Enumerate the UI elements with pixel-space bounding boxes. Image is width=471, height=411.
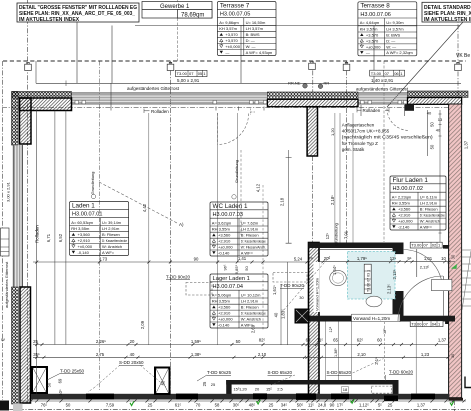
svg-text:34⁵: 34⁵: [281, 403, 288, 408]
axis dashed vertical x=99.4 Grundleitung: [98, 61, 100, 390]
bottom-left black wedge: [0, 401, 9, 411]
outer wall left: hatch vertical upper leg: [20, 98, 32, 144]
svg-text:LH 3,57m: LH 3,57m: [246, 26, 264, 31]
dashed box under label: [186, 283, 212, 296]
svg-text:1,64⁵: 1,64⁵: [332, 265, 337, 275]
dashed pocket door leaf: [371, 386, 391, 393]
svg-text:Lager Laden 1: Lager Laden 1: [213, 276, 250, 282]
corridor line x385.3: [384, 322, 386, 381]
svg-text:07: 07: [423, 321, 428, 326]
svg-text:Gewerbe 1: Gewerbe 1: [160, 4, 190, 10]
svg-text:1,38⁵: 1,38⁵: [334, 348, 338, 357]
roof drain RR.NE: [303, 84, 308, 89]
outer wall top-left corner: hatch horizontal leg: [20, 98, 72, 111]
svg-text:D: —: D: —: [246, 38, 255, 43]
svg-text:S-DD 65x20: S-DD 65x20: [268, 370, 293, 375]
svg-text:+±0,000: +±0,000: [225, 44, 240, 49]
Gewerbe 1 area label box: [142, 2, 212, 19]
door frame block on pink wall bottom: [445, 321, 449, 325]
svg-text:2,1⁵: 2,1⁵: [374, 357, 379, 365]
svg-text:T3.00: T3.00: [371, 71, 382, 76]
svg-text:H3.00.07.02: H3.00.07.02: [393, 186, 423, 192]
leader circle on grundleitung 2: [232, 195, 236, 199]
svg-text:Flur Laden 1: Flur Laden 1: [393, 177, 429, 184]
grating band segment right x358-407.5: [358, 94, 408, 102]
svg-text:2,75: 2,75: [96, 352, 105, 357]
leader from detail box x=77: [76, 22, 78, 83]
svg-text:U= 7,62m: U= 7,62m: [241, 220, 259, 225]
svg-text:20: 20: [255, 387, 260, 392]
svg-text:Terrasse 8: Terrasse 8: [360, 3, 390, 10]
axis grid dash-dot vertical far left: [2, 61, 4, 400]
vorwand blue zone: [348, 252, 396, 300]
svg-text:07: 07: [189, 71, 194, 76]
svg-text:—: —: [366, 50, 370, 55]
wc toilet oval: [366, 296, 382, 307]
svg-text:A= 3,62qm: A= 3,62qm: [212, 220, 232, 225]
svg-text:6,71: 6,71: [46, 233, 51, 242]
svg-text:IM AKTUELLSTEN IN: IM AKTUELLSTEN IN: [424, 17, 471, 23]
green check markers bottom: [130, 401, 134, 405]
interior line x237.3: [236, 113, 238, 262]
vorwand label vertical: [313, 262, 319, 312]
svg-text:Rolladen: Rolladen: [35, 225, 40, 243]
svg-text:D: Kassettendecke: D: Kassettendecke: [420, 213, 446, 218]
svg-text:1,37: 1,37: [438, 338, 447, 343]
stair steps right of pink wall: [462, 250, 471, 310]
svg-text:50: 50: [236, 339, 241, 344]
svg-text:W: Anstrich: W: Anstrich: [102, 244, 122, 249]
svg-text:25: 25: [33, 339, 38, 344]
svg-text:50⁵: 50⁵: [297, 403, 304, 408]
column K2 bottom-middle: [155, 368, 170, 395]
dashed leader S1: [271, 375, 295, 385]
dashed leader vertical x241: [240, 150, 242, 235]
top wall right section: hatch: [408, 98, 462, 105]
svg-text:6,85⁵: 6,85⁵: [234, 264, 239, 274]
dashed leader lager door: [283, 256, 330, 311]
WC north wall inner face line: [320, 249, 392, 251]
svg-text:H3.00.07.03: H3.00.07.03: [213, 212, 243, 218]
svg-text:70: 70: [196, 403, 201, 408]
right window jamb stubs: [361, 105, 428, 156]
svg-text:82⁵: 82⁵: [259, 338, 266, 343]
svg-text:1,20: 1,20: [239, 387, 248, 392]
svg-text:LH 3,57m: LH 3,57m: [386, 26, 404, 31]
long thin horizontal line y=25.5: [135, 25, 460, 27]
svg-text:+3,560: +3,560: [78, 232, 91, 237]
svg-text:40: 40: [427, 111, 432, 116]
svg-text:20⁵: 20⁵: [324, 256, 331, 261]
svg-text:LH 2,91m: LH 2,91m: [102, 226, 120, 231]
svg-text:A WF=: A WF=: [102, 250, 115, 255]
svg-text:58: 58: [215, 403, 220, 408]
room stamp Terrasse 7: [217, 2, 276, 56]
axis marker square x=312: [309, 61, 316, 69]
svg-text:T-DD 25x50: T-DD 25x50: [60, 369, 85, 374]
axis grid dash-dot vertical A x=27.6: [27, 0, 29, 403]
corridor line x347: [324, 322, 326, 381]
outer wall top-left corner: insulation horizontal: [12, 92, 72, 99]
svg-text:W: Anstrich: W: Anstrich: [241, 316, 261, 321]
svg-text:Rolladen: Rolladen: [363, 108, 381, 113]
svg-text:+±0,000: +±0,000: [218, 316, 233, 321]
Auflagertaschen note: [342, 122, 434, 152]
svg-text:10: 10: [441, 256, 446, 261]
svg-text:+±0,000: +±0,000: [366, 44, 381, 49]
right wall edge line: [461, 104, 463, 397]
svg-text:T-DD 90x20: T-DD 90x20: [166, 275, 191, 280]
top dashed horizontal line y=61: [3, 60, 466, 62]
svg-text:5,24: 5,24: [294, 257, 303, 262]
door frame block on pink wall top: [445, 245, 449, 249]
svg-text:Vorwand H=1,20m: Vorwand H=1,20m: [314, 277, 319, 311]
svg-text:50: 50: [430, 122, 435, 127]
svg-text:06: 06: [394, 71, 399, 76]
grating band segment left x71.5-267.4: [72, 94, 268, 102]
svg-text:gem. Statik: gem. Statik: [342, 147, 365, 152]
svg-text:-0,140: -0,140: [78, 250, 90, 255]
svg-text:VK Be: VK Be: [456, 53, 470, 59]
washbasin oval: [330, 270, 347, 285]
svg-text:für Tronsole Typ Z: für Tronsole Typ Z: [342, 141, 378, 146]
svg-text:KH 3,57m: KH 3,57m: [219, 26, 237, 31]
svg-text:B: BWS: B: BWS: [246, 32, 260, 37]
svg-text:25: 25: [202, 381, 207, 386]
flur door tag box T3.00 07 02 1: [410, 242, 442, 248]
svg-text:T-DD 60x20: T-DD 60x20: [389, 370, 414, 375]
svg-text:T3.00: T3.00: [411, 243, 422, 248]
svg-text:60: 60: [377, 338, 382, 343]
svg-text:1,83⁵: 1,83⁵: [281, 309, 286, 319]
svg-text:12⁵: 12⁵: [383, 328, 387, 334]
svg-text:D: Kassettendecke: D: Kassettendecke: [241, 311, 267, 316]
axis dash-dot vertical right x=458: [457, 15, 459, 97]
svg-text:2,5: 2,5: [277, 387, 283, 392]
svg-text:S-DD 20x50: S-DD 20x50: [119, 360, 144, 365]
svg-text:2,13⁵: 2,13⁵: [387, 284, 392, 294]
WC partition wall vertical hatched x308.5-319: [309, 243, 320, 398]
svg-text:7,59: 7,59: [106, 403, 115, 408]
svg-text:30⁵: 30⁵: [233, 403, 240, 408]
svg-text:WC Laden 1: WC Laden 1: [213, 203, 248, 210]
svg-text:+2,910: +2,910: [218, 239, 231, 244]
svg-text:RH 3,55m: RH 3,55m: [392, 201, 411, 206]
svg-text:A= 5,06qm: A= 5,06qm: [212, 292, 232, 297]
svg-text:Vorwand H=1,20m: Vorwand H=1,20m: [353, 316, 390, 321]
svg-text:Grundleitung: Grundleitung: [334, 223, 339, 246]
svg-text:D: Kassettendecke: D: Kassettendecke: [241, 239, 267, 244]
svg-text:2,69: 2,69: [251, 324, 256, 333]
svg-text:25: 25: [269, 403, 274, 408]
svg-text:+3,570: +3,570: [225, 38, 238, 43]
svg-text:B: BWS: B: BWS: [386, 32, 400, 37]
svg-text:50: 50: [66, 403, 71, 408]
svg-text:W: —: W: —: [386, 44, 396, 49]
svg-text:24: 24: [308, 256, 313, 261]
svg-text:1,12⁵: 1,12⁵: [359, 403, 369, 408]
left grating stub below wall: [13, 404, 23, 411]
svg-text:LH 2,91m: LH 2,91m: [241, 299, 259, 304]
entrance door niche rect: [432, 280, 452, 291]
svg-text:+2,910: +2,910: [78, 238, 91, 243]
svg-text:12⁵: 12⁵: [390, 256, 397, 261]
svg-text:11⁵: 11⁵: [308, 403, 314, 408]
svg-text:Laden 1: Laden 1: [72, 202, 95, 209]
svg-text:U= 10,12m: U= 10,12m: [241, 292, 261, 297]
leader T-DD 25x50: [47, 374, 60, 381]
svg-text:Rolladen: Rolladen: [151, 109, 169, 114]
wall stub below pier (WC wall top start): [307, 107, 317, 156]
svg-text:A): A): [179, 222, 184, 227]
svg-text:A WF= 2,32qm: A WF= 2,32qm: [386, 50, 413, 55]
svg-text:+3,570: +3,570: [366, 32, 379, 37]
svg-text:H3.00.07.01: H3.00.07.01: [72, 212, 102, 218]
bottom right corner wall piece: [465, 377, 471, 388]
svg-text:2,18: 2,18: [280, 197, 285, 206]
svg-text:+±0,000: +±0,000: [218, 244, 233, 249]
svg-text:25: 25: [148, 403, 153, 408]
svg-text:S-DD 65x20: S-DD 65x20: [327, 370, 352, 375]
svg-text:-0,140: -0,140: [218, 322, 230, 327]
svg-text:A= 2,23qm: A= 2,23qm: [392, 194, 412, 199]
tick on facade line: [65, 81, 67, 87]
svg-text:40: 40: [274, 312, 279, 317]
svg-text:2,18⁵: 2,18⁵: [330, 195, 335, 205]
WC north wall y242.5-248: [309, 243, 400, 249]
svg-text:25: 25: [388, 403, 393, 408]
svg-text:W: —: W: —: [246, 44, 256, 49]
door swing arc B (flur to laden door): [398, 276, 443, 321]
Rolladen label right window: [357, 108, 389, 113]
interior line x353: [352, 113, 354, 243]
svg-text:U= 16,50m: U= 16,50m: [246, 20, 266, 25]
axis dashed vertical through Gewerbe box x=177.4: [176, 0, 178, 61]
svg-text:A WF=: A WF=: [241, 250, 254, 255]
svg-text:02: 02: [432, 243, 437, 248]
svg-text:3,00 x 2,91: 3,00 x 2,91: [6, 181, 11, 202]
svg-text:50: 50: [430, 144, 435, 149]
wall inner face left: [36, 110, 38, 394]
corridor interior bar y380-384.5: [226, 380, 398, 385]
vertical tag box left edge: [1, 228, 10, 256]
svg-text:65: 65: [306, 338, 311, 343]
svg-text:90: 90: [330, 403, 335, 408]
axis marker square x=346.5: [343, 62, 350, 70]
svg-text:13: 13: [438, 117, 443, 122]
svg-text:H3.00.07.05: H3.00.07.05: [220, 12, 250, 18]
svg-text:T-DD 60x25: T-DD 60x25: [207, 370, 232, 375]
svg-text:10⁵: 10⁵: [58, 389, 63, 396]
dashed box right: [273, 273, 307, 283]
svg-text:H3.00.07.06: H3.00.07.06: [360, 12, 390, 18]
axis dash-dot vertical x=312.3 mid segment: [311, 156, 313, 243]
axis marker square x=28: [25, 62, 32, 70]
svg-text:1,23: 1,23: [421, 352, 430, 357]
leader x=112: [111, 26, 113, 84]
north wall stub right of flur door: [443, 245, 449, 249]
svg-text:B: Fliesen: B: Fliesen: [420, 207, 438, 212]
darker threshold chunks: [296, 393, 316, 400]
svg-text:20: 20: [130, 339, 135, 344]
top wall pier middle: hatch: [267, 99, 358, 106]
svg-text:2,10: 2,10: [357, 352, 366, 357]
interior line x148.8: [148, 113, 150, 345]
dim chain vertical x61: [65, 111, 67, 345]
axis marker square x=170.5: [167, 62, 174, 70]
right window swing arc: [387, 109, 409, 131]
interior bar right end cap: [393, 380, 399, 394]
small dashed mark at window mullion: [251, 109, 256, 116]
axis grid dash-dot vertical B x=170.4: [169, 61, 171, 397]
svg-text:IM AKTUELLSTEN INDEX: IM AKTUELLSTEN INDEX: [19, 17, 80, 23]
svg-text:6,52: 6,52: [58, 233, 63, 242]
svg-text:96⁵: 96⁵: [223, 264, 228, 270]
window jamb x111: [110, 83, 112, 110]
svg-text:1,41: 1,41: [238, 256, 247, 261]
thin facade line y=83.3: [36, 82, 461, 84]
leader T-DD 60x20: [384, 375, 386, 381]
svg-text:07: 07: [423, 243, 428, 248]
axis marker square x=458: [455, 62, 462, 70]
svg-text:18: 18: [343, 387, 348, 392]
svg-text:+3,560: +3,560: [218, 233, 231, 238]
flur west wall upper segment: [393, 243, 404, 255]
svg-text:48⁵: 48⁵: [249, 403, 256, 408]
outer wall left lower: insulation vertical: [12, 287, 19, 404]
svg-text:07: 07: [385, 71, 390, 76]
svg-text:Terrasse 7: Terrasse 7: [220, 2, 250, 9]
svg-text:12⁵: 12⁵: [325, 233, 330, 240]
svg-text:+±0,000: +±0,000: [398, 218, 413, 223]
svg-text:aufgeständertes Gitterrost: aufgeständertes Gitterrost: [356, 87, 409, 92]
svg-text:+2,910: +2,910: [218, 311, 231, 316]
svg-text:A WF= 4,93qm: A WF= 4,93qm: [246, 50, 273, 55]
corridor line x416.2: [415, 322, 417, 394]
svg-text:LH 2,91m: LH 2,91m: [241, 227, 259, 232]
door A leaf line: [416, 249, 418, 277]
svg-text:RH 3,55m: RH 3,55m: [71, 226, 90, 231]
svg-text:LH 2,91m: LH 2,91m: [420, 201, 438, 206]
outer wall left: insulation vertical upper leg: [12, 92, 19, 146]
svg-text:1,40 x 2,91: 1,40 x 2,91: [371, 78, 394, 83]
dim vertical x287.5: [287, 262, 289, 345]
svg-text:D: —: D: —: [386, 38, 395, 43]
dash-dot horizontal main wall axis y=107.5: [2, 107, 461, 109]
axis dash-dot vertical x=346.5: [346, 61, 348, 243]
svg-text:1,59⁵: 1,59⁵: [191, 339, 201, 344]
svg-text:+3,560: +3,560: [398, 207, 411, 212]
tick stubs below band: [216, 107, 264, 111]
dimension chain row A y344.5: [33, 344, 448, 346]
svg-text:78,69qm: 78,69qm: [181, 13, 204, 19]
svg-text:7,01: 7,01: [344, 230, 349, 239]
svg-text:25: 25: [211, 382, 216, 387]
dim vertical x281: [280, 285, 282, 345]
svg-text:T3.00: T3.00: [411, 321, 422, 326]
svg-text:RH 3,55m: RH 3,55m: [212, 227, 231, 232]
grating support feet: [75, 101, 407, 104]
svg-text:—: —: [225, 50, 229, 55]
svg-text:(nachträglich mit C35/45 versc: (nachträglich mit C35/45 verschließen): [342, 135, 434, 140]
svg-text:W: Anstrich: W: Anstrich: [420, 218, 440, 223]
left window swing arc: [218, 114, 249, 145]
svg-text:5,00 x 2,91: 5,00 x 2,91: [177, 78, 200, 83]
svg-text:aufgeständertes Gitterrost: aufgeständertes Gitterrost: [127, 86, 180, 91]
svg-text:61⁵: 61⁵: [175, 403, 182, 408]
svg-text:9⁵: 9⁵: [407, 256, 411, 261]
leader terrasse8 x=374: [373, 26, 375, 84]
svg-text:40: 40: [436, 128, 441, 133]
dashed projection x263: [262, 185, 264, 330]
interior line x340: [339, 113, 341, 243]
svg-text:U= 6,11m: U= 6,11m: [420, 194, 438, 199]
svg-text:2,26⁵: 2,26⁵: [96, 339, 106, 344]
svg-text:40: 40: [130, 352, 135, 357]
dimension chain mid y262 right (WC): [320, 261, 455, 263]
svg-text:Auflagertaschen: Auflagertaschen: [342, 122, 375, 127]
svg-text:1,38⁵: 1,38⁵: [191, 352, 201, 357]
svg-text:17⁵: 17⁵: [337, 403, 344, 408]
svg-text:24,8: 24,8: [318, 403, 327, 408]
svg-text:W: W: [1, 337, 5, 342]
dimension chain row B y357.3: [33, 356, 448, 358]
dim chain vertical x48: [54, 111, 56, 345]
svg-text:-2,140: -2,140: [398, 224, 410, 229]
svg-text:D: Kassettendecke: D: Kassettendecke: [102, 238, 128, 243]
svg-text:T-DD 90x20: T-DD 90x20: [280, 283, 305, 288]
left grating vertical strip: [15, 145, 21, 287]
svg-text:40/50/17cm UK=+8,955: 40/50/17cm UK=+8,955: [342, 129, 390, 134]
interior bar left end cap: [226, 380, 231, 397]
svg-text:5⁵: 5⁵: [378, 403, 382, 408]
svg-text:1,61⁵: 1,61⁵: [272, 285, 277, 295]
svg-text:15⁵: 15⁵: [266, 387, 272, 392]
svg-text:+3,570: +3,570: [366, 38, 379, 43]
flur door tag box T3.00 07 04 1: [410, 321, 443, 327]
dashed leader to (A): [99, 182, 177, 223]
window tag box T3.00 07 05 1: [176, 70, 208, 76]
svg-text:1,37: 1,37: [417, 403, 426, 408]
door swing arc A (flur to WC door): [403, 250, 443, 290]
svg-text:65: 65: [333, 338, 338, 343]
svg-text:1,37: 1,37: [464, 140, 469, 149]
svg-text:-0,140: -0,140: [218, 250, 230, 255]
svg-text:4,12: 4,12: [256, 183, 261, 192]
roof drain RR: [318, 84, 323, 89]
svg-text:05: 05: [198, 71, 203, 76]
svg-text:W: Fliesen/Anstr.: W: Fliesen/Anstr.: [241, 244, 266, 249]
room stamp Terrasse 8: [358, 2, 417, 56]
svg-text:T3.00 07 03 1: T3.00 07 03 1: [367, 270, 371, 292]
svg-text:Grundleitung: Grundleitung: [234, 160, 239, 183]
svg-text:T3.00: T3.00: [177, 71, 188, 76]
top wall right section x407.5-448.6: insulation: [408, 91, 469, 98]
svg-text:11⁵: 11⁵: [317, 338, 323, 343]
window tag box T3.00 07 06 1: [370, 70, 405, 76]
svg-text:aufgeständertes Gitterrost: aufgeständertes Gitterrost: [4, 261, 9, 308]
svg-text:KH 3,57m: KH 3,57m: [360, 26, 378, 31]
right dim vertical x446: [439, 110, 441, 242]
leader circle on grundleitung: [91, 194, 95, 198]
diagonal leader from detail standard box: [387, 22, 463, 107]
svg-text:30: 30: [451, 354, 455, 358]
Rolladen label left window: [144, 109, 169, 114]
leader T-DD 60x25: [197, 375, 207, 381]
entrance arrow green triangle: [451, 264, 457, 269]
svg-text:2,09: 2,09: [140, 320, 145, 329]
vertical door tag box T3.00 07 03 1: [364, 264, 371, 293]
